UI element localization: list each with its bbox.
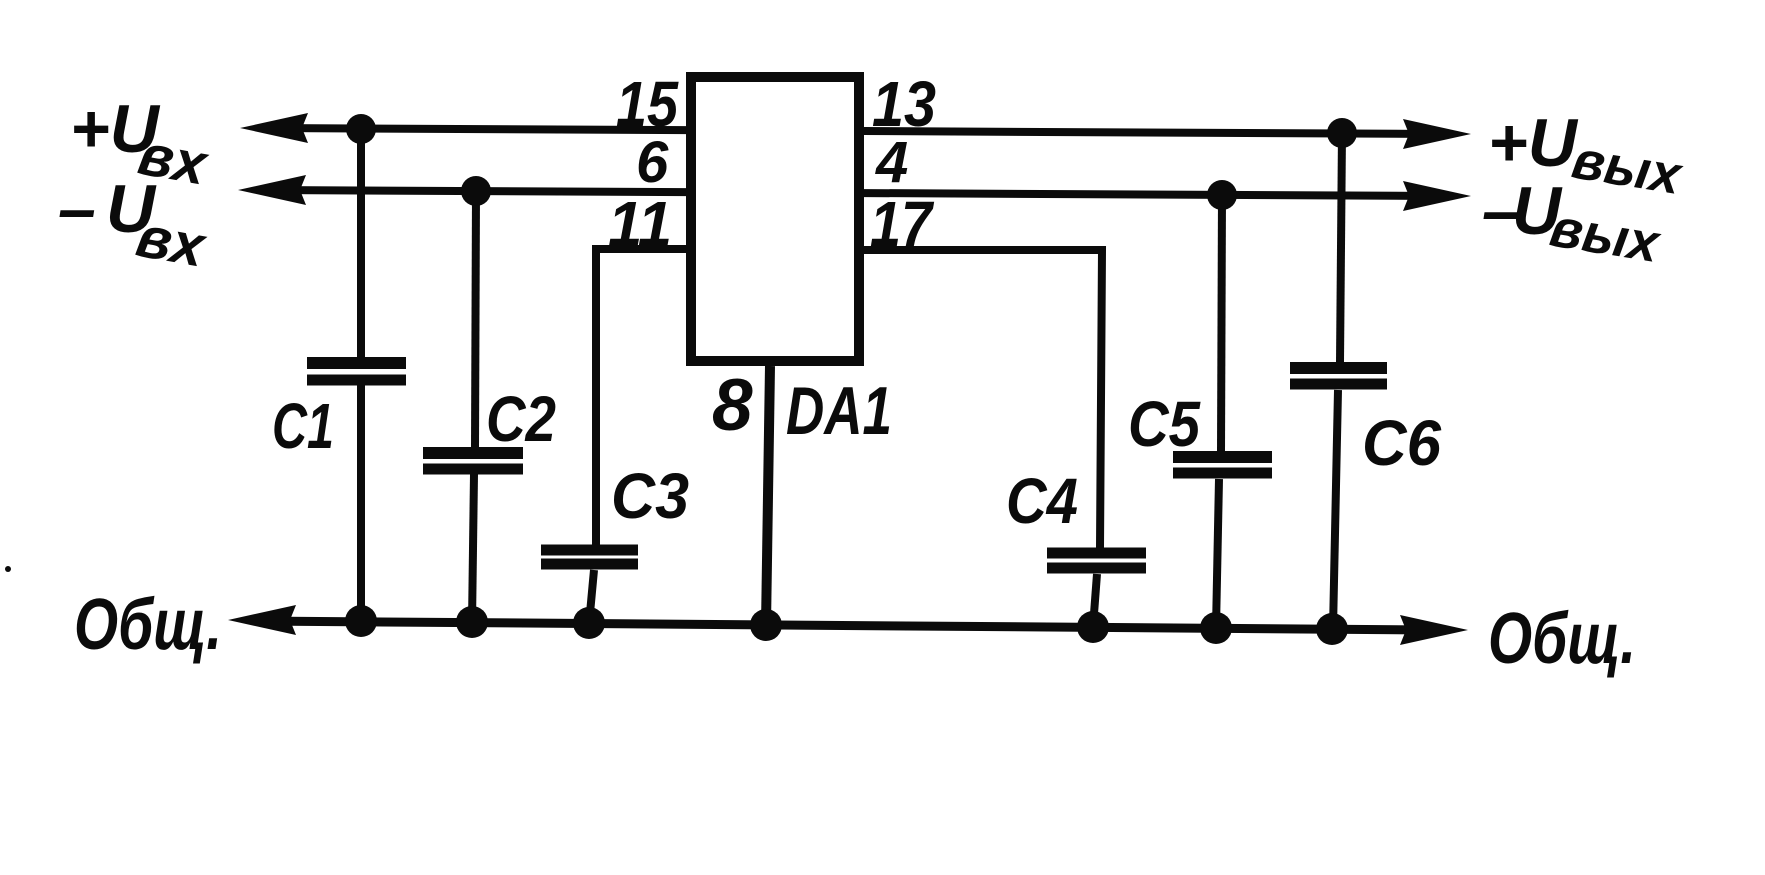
node dot C6 on common [1316, 613, 1348, 645]
svg-text:Общ.: Общ. [1488, 599, 1636, 679]
wire capacitor C5 vertical [1221, 194, 1222, 451]
svg-text:–: – [58, 171, 96, 247]
svg-text:вх: вх [132, 204, 212, 280]
wire pin 8 to common [766, 366, 770, 625]
arrow right on -Uout rail [1403, 181, 1471, 211]
IC DA1 body [691, 77, 859, 361]
wire pin 11 to C3 [596, 249, 686, 545]
arrow left on common rail [228, 605, 296, 635]
svg-text:C4: C4 [1006, 465, 1078, 537]
svg-text:C5: C5 [1128, 388, 1201, 460]
svg-text:Общ.: Общ. [74, 585, 222, 665]
svg-text:+U: +U [1488, 105, 1579, 181]
speck [5, 566, 11, 572]
node dot C4 on common [1077, 611, 1109, 643]
node dot C2 on common [456, 606, 488, 638]
node dot C1 on +rail [346, 114, 376, 144]
svg-text:6: 6 [636, 130, 669, 195]
arrow left on -Uin rail [238, 175, 306, 205]
wire -Uin/-Uout second rail [266, 190, 1440, 196]
svg-text:C1: C1 [272, 390, 334, 462]
svg-text:4: 4 [875, 130, 908, 195]
svg-text:DA1: DA1 [786, 373, 892, 449]
wire common bottom rail [256, 621, 1438, 630]
arrow right on common rail [1400, 615, 1468, 645]
capacitor C6 plates [1290, 362, 1387, 374]
node dot C6 on +rail [1327, 118, 1357, 148]
svg-text:вых: вых [1568, 130, 1687, 207]
svg-text:C2: C2 [486, 383, 556, 455]
wire pin 17 to C4 [864, 250, 1102, 548]
node dot C3 on common [573, 607, 605, 639]
wire +Uin/+Uout top rail [268, 128, 1440, 134]
node dot C5 on common [1200, 612, 1232, 644]
arrow right on +Uout rail [1403, 119, 1471, 149]
capacitor C3 plates [541, 545, 638, 556]
capacitor C4 plates [1047, 548, 1146, 559]
svg-text:C3: C3 [611, 460, 689, 532]
svg-text:8: 8 [712, 365, 753, 446]
svg-text:17: 17 [870, 188, 935, 260]
wire capacitor C2 vertical [475, 191, 476, 448]
arrow left on +Uin rail [240, 113, 308, 143]
capacitor C2 plates [423, 447, 523, 459]
node dot pin8 on common [750, 609, 782, 641]
capacitor C1 plates [307, 357, 406, 369]
wire capacitor C6 vertical [1340, 132, 1342, 362]
svg-text:11: 11 [608, 188, 672, 260]
node dot C5 on -rail [1207, 180, 1237, 210]
svg-text:вых: вых [1546, 198, 1665, 275]
capacitor C5 plates [1173, 451, 1272, 463]
node dot C2 on -rail [461, 176, 491, 206]
node dot C1 on common [345, 605, 377, 637]
wire capacitor C1 vertical [357, 129, 365, 358]
svg-text:C6: C6 [1362, 407, 1441, 479]
